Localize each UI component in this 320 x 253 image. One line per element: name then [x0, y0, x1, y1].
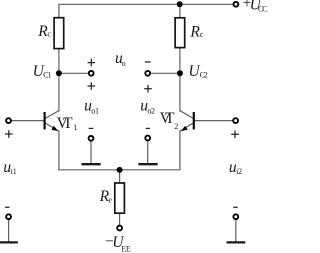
svg-text:c: c — [47, 30, 51, 39]
svg-text:C: C — [262, 5, 267, 14]
svg-text:E: E — [126, 244, 131, 253]
svg-text:VT: VT — [160, 110, 176, 127]
svg-text:1: 1 — [73, 123, 77, 132]
svg-text:1: 1 — [95, 107, 99, 116]
svg-text:2: 2 — [204, 70, 208, 79]
svg-text:1: 1 — [13, 167, 17, 176]
svg-text:1: 1 — [48, 70, 52, 79]
svg-text:2: 2 — [174, 122, 178, 131]
svg-text:e: e — [109, 195, 113, 204]
svg-text:2: 2 — [238, 167, 242, 176]
svg-text:VT: VT — [57, 115, 74, 132]
svg-text:c: c — [200, 30, 204, 39]
svg-text:o: o — [122, 59, 126, 68]
svg-text:2: 2 — [151, 107, 155, 116]
